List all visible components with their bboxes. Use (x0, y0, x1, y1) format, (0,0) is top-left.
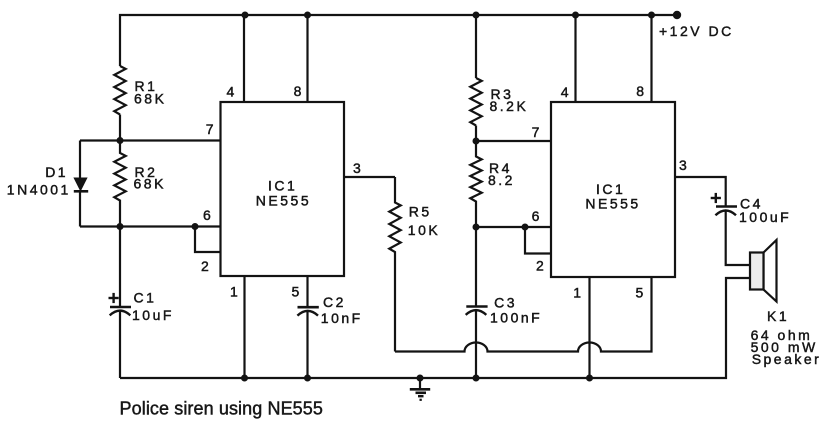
svg-text:NE555: NE555 (256, 193, 311, 209)
node supply rail junction dots (242, 12, 249, 19)
wire D1 anode branch (79, 141, 81, 180)
ground (410, 378, 430, 400)
node pin2 pin6 junction left (192, 223, 199, 230)
wire pin 5 IC1 to capacitor C2 (306, 276, 308, 306)
wire pin 7 line right (476, 140, 551, 142)
svg-text:10uF: 10uF (132, 307, 174, 323)
svg-text:5: 5 (292, 284, 300, 300)
resistor R1 (114, 66, 125, 115)
svg-text:7: 7 (206, 121, 214, 137)
svg-text:1: 1 (230, 284, 238, 300)
svg-text:C3: C3 (494, 294, 517, 310)
svg-text:8: 8 (294, 83, 302, 99)
wire R1 bottom to pin7 node (119, 115, 121, 141)
svg-text:68K: 68K (134, 90, 166, 106)
svg-text:7: 7 (532, 124, 540, 140)
svg-text:3: 3 (679, 157, 687, 173)
speaker K1 symbol (750, 240, 777, 302)
op-amp U2 body: timer IC2 NE555 box (551, 102, 675, 277)
svg-text:D1: D1 (45, 164, 68, 180)
svg-text:8.2K: 8.2K (490, 98, 529, 114)
wire R5 to pin5 IC2 with hops (395, 277, 652, 352)
wire pin 2 step right (525, 227, 551, 254)
wire node to capacitor C1 (119, 227, 121, 307)
wire C2 bottom to ground rail (306, 310, 308, 378)
wire pin 3 IC2 to C4 (675, 177, 726, 206)
resistor R5 (389, 177, 400, 352)
svg-text:C2: C2 (323, 294, 346, 310)
svg-text:Police siren using NE555: Police siren using NE555 (120, 399, 324, 419)
svg-text:6: 6 (532, 208, 540, 224)
wire C3 bottom to ground rail (475, 310, 477, 379)
wire bottom ground rail (120, 278, 750, 378)
svg-text:2: 2 (536, 258, 544, 274)
capacitor C1 (109, 293, 132, 316)
wire R3 top (475, 15, 477, 78)
svg-text:1: 1 (573, 284, 581, 300)
svg-text:10nF: 10nF (321, 310, 363, 326)
diode D1 (74, 178, 88, 191)
op-amp U1 body: timer IC1 NE555 box (221, 102, 345, 276)
wire pin 7 line left (80, 139, 221, 141)
svg-text:1N4001: 1N4001 (7, 182, 71, 198)
wire top supply rail (120, 15, 677, 66)
capacitor C3 (466, 307, 488, 315)
wire node to capacitor C3 (475, 227, 477, 306)
wire pin 3 IC1 output (344, 176, 395, 178)
svg-text:6: 6 (203, 207, 211, 223)
svg-text:100uF: 100uF (739, 209, 791, 225)
svg-text:NE555: NE555 (585, 196, 640, 212)
svg-text:Speaker: Speaker (752, 351, 822, 367)
capacitor C4 (711, 193, 737, 215)
node ground rail junction dots (241, 375, 248, 382)
node R2 C1 pin6 junction (117, 223, 124, 230)
svg-text:+12V DC: +12V DC (659, 23, 734, 39)
svg-text:68K: 68K (134, 176, 166, 192)
wire D1 cathode branch (79, 191, 81, 227)
node R3 R4 pin7 junction right (473, 138, 480, 145)
svg-text:5: 5 (636, 284, 644, 300)
svg-text:C1: C1 (134, 290, 157, 306)
resistor R2 (114, 141, 125, 227)
wire pin 4 IC2 (574, 15, 576, 102)
node R1 R2 pin7 junction (117, 137, 124, 144)
svg-text:4: 4 (561, 84, 569, 100)
resistor R3 (470, 78, 481, 126)
wire pin 8 IC1 (306, 15, 308, 102)
svg-text:4: 4 (227, 84, 235, 100)
svg-text:8: 8 (636, 83, 644, 99)
wire C1 bottom to ground rail (119, 310, 121, 378)
wire pin 1 IC1 to ground rail (243, 276, 245, 378)
capacitor C2 (297, 307, 318, 315)
svg-text:100nF: 100nF (490, 309, 542, 325)
node R4 C3 pin6 junction right (473, 224, 480, 231)
svg-text:K1: K1 (767, 308, 789, 324)
node +12V terminal dot (673, 11, 681, 19)
svg-text:IC1: IC1 (596, 181, 625, 197)
wire pin 6 line right (476, 226, 551, 228)
svg-text:R5: R5 (409, 203, 432, 219)
svg-text:3: 3 (353, 160, 361, 176)
wire pin 8 IC2 (650, 15, 652, 102)
wire pin 1 IC2 to ground rail (588, 277, 590, 378)
svg-text:2: 2 (201, 258, 209, 274)
wire pin 4 IC1 (243, 15, 245, 102)
wire C4 bottom to speaker top terminal (726, 210, 750, 265)
wire R3 bottom to pin7 node (475, 126, 477, 142)
svg-text:8.2: 8.2 (488, 172, 515, 188)
wire pin 2 step left (195, 227, 221, 253)
node pin2 pin6 junction right (522, 224, 529, 231)
resistor R4 (470, 141, 481, 227)
svg-text:IC1: IC1 (268, 178, 297, 194)
wire pin 6 line left (80, 225, 221, 227)
svg-text:10K: 10K (408, 222, 440, 238)
